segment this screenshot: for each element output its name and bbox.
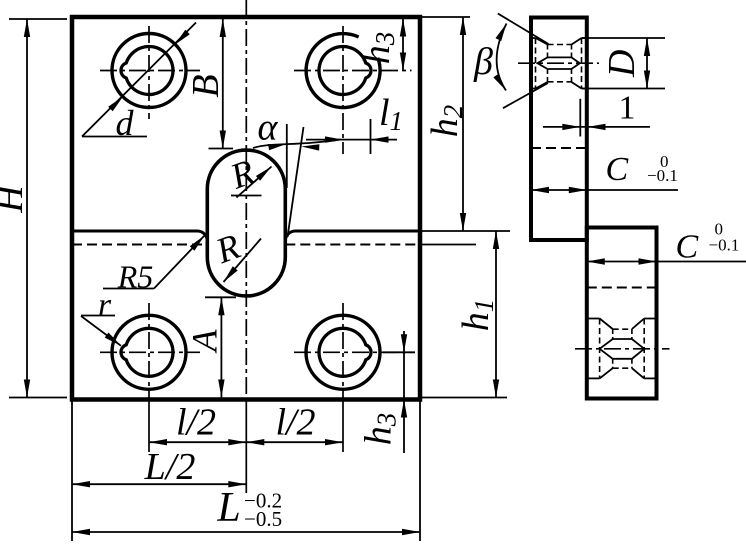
leader R5 line xyxy=(154,236,205,289)
leader d diagonal xyxy=(82,23,196,137)
split line extension right xyxy=(420,230,510,232)
upper hole pattern top edge xyxy=(531,37,536,39)
dimension h3 top arrows xyxy=(400,19,406,37)
dimension H line xyxy=(26,19,28,398)
dimension L/2 line xyxy=(72,483,246,485)
dimension h3 bottom line xyxy=(403,331,405,453)
dimension 1 line xyxy=(543,126,650,128)
dimension H extension lines xyxy=(9,18,67,20)
svg-text:α: α xyxy=(258,107,279,149)
alpha arc arrows xyxy=(268,144,286,150)
lower hole lens profile xyxy=(600,339,645,359)
leader R5 arrow xyxy=(190,236,205,251)
dimension C upper arrows xyxy=(531,187,549,193)
svg-text:C: C xyxy=(675,228,698,265)
leader R top arrow xyxy=(256,167,272,181)
dimension L line xyxy=(72,531,420,533)
dimension B extension line xyxy=(209,148,234,150)
upper hole outer wall dashed xyxy=(535,38,537,89)
dimension C lower arrows xyxy=(587,258,605,264)
dimension L arrows xyxy=(72,529,90,535)
dimension B line xyxy=(222,19,224,149)
svg-text:L: L xyxy=(216,485,240,531)
dimension l1 extension line xyxy=(370,119,372,154)
hole top-right (keyhole) xyxy=(306,34,380,108)
beta dimension arc xyxy=(497,24,507,91)
leader R5 underline xyxy=(103,288,154,290)
lower hole chamfer diagonals xyxy=(600,319,613,330)
dimension 1 arrows xyxy=(562,124,580,130)
dimension 1 tick line xyxy=(579,99,581,137)
upper dashed line xyxy=(531,147,587,149)
hidden edge dashed left xyxy=(72,244,207,246)
dimension C upper line xyxy=(531,189,678,191)
hidden edge dashed right xyxy=(285,244,420,246)
lower hole pattern bottom edge xyxy=(587,377,600,379)
svg-text:l/2: l/2 xyxy=(176,402,216,444)
upper hole pattern bottom edge xyxy=(531,88,536,90)
hole bottom-left (keyhole) xyxy=(112,315,186,389)
dimension h1 arrows xyxy=(493,231,499,249)
lower dashed line xyxy=(587,287,657,289)
plate bottom edge extension right xyxy=(420,397,507,399)
plate top edge extension right xyxy=(420,16,470,18)
dimension L/2 arrows xyxy=(72,481,90,487)
dimension l/2 arrows xyxy=(149,439,167,445)
plate outline xyxy=(72,17,420,400)
dimension C lower line xyxy=(587,261,746,263)
dimension l1 arrows xyxy=(325,136,343,142)
upper hole dashed horizontals xyxy=(548,44,572,46)
upper hole chamfer diagonals xyxy=(536,38,548,45)
dimension A extension line xyxy=(205,296,236,298)
svg-text:D: D xyxy=(601,50,643,78)
dimension h3 top line xyxy=(402,19,404,71)
svg-text:r: r xyxy=(98,287,112,324)
leader R bottom xyxy=(224,239,262,283)
lower hole dashed horizontals xyxy=(613,328,632,330)
hole bottom-left centerlines xyxy=(100,351,200,353)
svg-text:1: 1 xyxy=(619,90,636,127)
lower hole pattern top edge xyxy=(587,318,600,320)
svg-text:H: H xyxy=(0,183,31,214)
hole bottom-right (keyhole) xyxy=(306,315,380,389)
dimension D extension lines xyxy=(582,37,666,39)
left edge extension down xyxy=(71,400,73,542)
svg-text:−0.5: −0.5 xyxy=(244,507,282,531)
beta arc arrows xyxy=(496,24,507,42)
lower hole inner wall dashed xyxy=(612,329,614,339)
leader r line xyxy=(81,316,121,346)
dimension h3 bottom extension line xyxy=(383,351,415,353)
hole top-right centerlines xyxy=(294,70,412,72)
dimension A arrows xyxy=(218,297,224,315)
leader R top xyxy=(237,167,272,198)
dimension h2 line xyxy=(462,17,464,231)
svg-text:C: C xyxy=(606,151,629,188)
dimension D arrows xyxy=(644,38,650,56)
svg-text:B: B xyxy=(185,74,227,97)
upper hole centerline xyxy=(518,62,599,64)
svg-text:A: A xyxy=(185,329,225,354)
beta line upper xyxy=(498,14,549,45)
central slot xyxy=(207,150,285,296)
slot top-arc center tick xyxy=(231,195,262,197)
hole bottom-right centerlines xyxy=(294,351,414,353)
right edge extension down xyxy=(419,400,421,542)
upper side view outline xyxy=(531,18,587,241)
dimension h2 arrows xyxy=(460,17,466,35)
svg-text:d: d xyxy=(116,103,135,143)
dimension B arrows xyxy=(220,19,226,37)
dimension h3 bottom arrows xyxy=(401,334,407,352)
upper hole lens profile xyxy=(538,57,580,69)
beta line lower xyxy=(503,83,548,108)
dimension H arrows xyxy=(24,19,30,37)
dimension l/2 line xyxy=(149,441,343,443)
lower hole outer wall dashed xyxy=(599,319,601,379)
dimension l1 line xyxy=(306,139,397,141)
svg-text:R5: R5 xyxy=(117,259,154,295)
svg-text:L/2: L/2 xyxy=(144,446,196,488)
dimension A line xyxy=(220,297,222,397)
svg-text:−0.1: −0.1 xyxy=(647,166,678,185)
svg-text:l/2: l/2 xyxy=(275,402,315,444)
split line left segment with fillet xyxy=(72,231,207,241)
plate vertical centerline xyxy=(245,0,247,400)
upper hole inner wall dashed xyxy=(547,45,549,58)
lower hole centerline xyxy=(575,348,670,350)
svg-text:−0.1: −0.1 xyxy=(709,235,740,254)
svg-text:β: β xyxy=(473,41,493,83)
lower side view outline xyxy=(587,228,657,399)
hole top-left centerlines xyxy=(100,70,200,72)
dimension h1 line xyxy=(495,231,497,398)
leader d underline xyxy=(82,136,147,138)
dimension D line xyxy=(646,38,648,89)
leader R bottom arrow xyxy=(224,266,238,282)
hole top-left (keyhole) xyxy=(112,34,186,108)
alpha extension vertical line xyxy=(286,124,288,188)
alpha draft tilted line xyxy=(288,127,304,237)
alpha dimension arc xyxy=(253,140,341,149)
hidden edge extension right xyxy=(420,244,476,246)
split line right segment with fillet xyxy=(285,231,420,241)
leader d arrows xyxy=(175,30,190,45)
leader r underline xyxy=(81,315,115,317)
leader r arrow xyxy=(105,333,121,346)
